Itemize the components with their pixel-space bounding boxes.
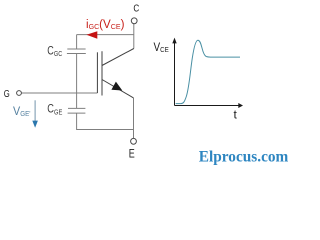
svg-text:t: t — [234, 108, 238, 122]
svg-text:E: E — [129, 147, 135, 161]
svg-text:iGC(VCE): iGC(VCE) — [86, 19, 125, 31]
svg-text:VCE: VCE — [154, 40, 169, 54]
svg-text:C: C — [133, 3, 139, 15]
svg-text:CGC: CGC — [47, 43, 62, 58]
svg-text:Elprocus.com: Elprocus.com — [199, 149, 289, 166]
svg-text:G: G — [4, 88, 10, 100]
svg-text:CGE: CGE — [47, 102, 62, 117]
svg-text:VGE': VGE' — [13, 104, 31, 118]
